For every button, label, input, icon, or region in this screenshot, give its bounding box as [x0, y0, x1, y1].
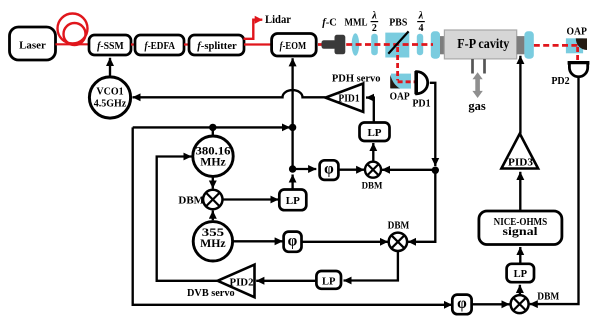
red beam PBS down — [398, 47, 416, 82]
svg-text:φ: φ — [457, 295, 467, 312]
red beam cavity to OAP2 — [534, 44, 578, 47]
cavity mount left — [440, 36, 448, 54]
oscillator 380.16 MHz — [193, 136, 233, 176]
wire PID3 to cavity — [519, 56, 521, 134]
svg-text:LP: LP — [514, 269, 528, 280]
svg-text:4: 4 — [419, 23, 424, 34]
wire red splitter-EOM — [244, 43, 272, 45]
fiber red line — [56, 43, 91, 45]
svg-text:PID3: PID3 — [508, 158, 533, 169]
f-EOM box — [272, 34, 317, 57]
red beam main — [318, 43, 433, 46]
OAP1 cyan mount — [391, 74, 411, 89]
wire red Lidar branch — [244, 20, 263, 39]
wire 380 top stub — [212, 126, 214, 137]
wire rail y127 into EOM junction — [133, 126, 290, 128]
svg-text:PD1: PD1 — [412, 98, 430, 109]
svg-text:signal: signal — [503, 224, 539, 238]
svg-text:λ: λ — [371, 11, 377, 22]
wire EOM drive vertical — [291, 58, 293, 169]
wire VCO1 to f-SSM — [109, 58, 111, 77]
node PD1 junction — [432, 167, 439, 174]
svg-text:φ: φ — [288, 233, 298, 250]
svg-text:f-SSM: f-SSM — [97, 40, 124, 52]
svg-text:gas: gas — [468, 99, 486, 113]
wire outer loop 380MHz rail to bottom phi — [133, 127, 452, 304]
svg-text:MHz: MHz — [200, 238, 226, 250]
filter LP4 — [507, 264, 534, 282]
oscillator VCO1 — [89, 77, 130, 118]
svg-text:OAP: OAP — [390, 91, 410, 102]
cavity gas legs — [471, 59, 474, 74]
svg-text:f-EOM: f-EOM — [280, 40, 307, 52]
mixer DBM4 — [511, 295, 529, 313]
node LP-phi junction — [289, 165, 296, 172]
amplifier PID1 — [325, 84, 363, 112]
svg-text:LP: LP — [322, 276, 336, 287]
wire PD2 down to DBM4 — [530, 77, 579, 304]
wire PD1 down to junction — [430, 83, 436, 166]
svg-text:LP: LP — [286, 195, 300, 207]
wire PID1 to VCO1 with hop — [133, 90, 326, 97]
phase shifter phi1 — [320, 160, 339, 180]
wire DBM2 up to LP2 — [372, 143, 374, 161]
photodetector PD2 — [568, 61, 590, 65]
mixer DBM3 — [389, 233, 407, 251]
f-SSM box — [89, 35, 131, 55]
node rail-380 — [209, 124, 216, 131]
phase shifter phi3 — [452, 295, 471, 315]
red beam OAP2 to PD2 — [576, 47, 579, 61]
svg-text:2: 2 — [372, 23, 377, 34]
svg-text:4.5GHz: 4.5GHz — [94, 98, 127, 109]
svg-text:MHz: MHz — [200, 156, 226, 168]
svg-text:LP: LP — [367, 127, 381, 139]
filter LP1 — [279, 190, 306, 211]
svg-text:f-EDFA: f-EDFA — [145, 40, 176, 52]
svg-text:OAP: OAP — [567, 27, 587, 38]
cavity mirror right — [524, 31, 533, 58]
svg-text:PDH servo: PDH servo — [332, 72, 381, 84]
svg-text:PID1: PID1 — [338, 93, 359, 104]
wire phi3 to DBM4 — [472, 303, 510, 305]
svg-text:F-P cavity: F-P cavity — [457, 36, 509, 51]
OAP2 mirror wedge — [576, 38, 587, 50]
svg-text:DBM: DBM — [178, 196, 204, 207]
svg-text:λ: λ — [418, 11, 424, 22]
wire red SSM-EDFA — [131, 43, 135, 45]
svg-text:Lidar: Lidar — [265, 12, 292, 26]
gas arrow — [472, 72, 482, 98]
mixer DBM2 — [365, 162, 381, 178]
PBS diagonal — [388, 31, 408, 53]
f-C connector — [322, 35, 346, 55]
quarter-wave plate — [417, 34, 423, 56]
wire LP1 up to junction — [291, 175, 293, 190]
wire 355 to DBM1 — [212, 211, 214, 221]
OAP1 mirror wedge — [390, 75, 400, 89]
NICE-OHMS signal box — [479, 211, 562, 245]
svg-text:MML: MML — [345, 17, 368, 29]
MML lens — [352, 33, 360, 55]
wire DVB feedback PID2 to 380MHz — [157, 157, 219, 281]
F-P cavity body — [444, 30, 516, 59]
filter LP2 — [360, 123, 390, 142]
wire phi2 to DBM3 — [302, 241, 389, 243]
wire LP3 to PID2 — [256, 280, 316, 282]
wire 355 to phi2 — [233, 240, 283, 242]
f-EDFA box — [135, 35, 184, 55]
svg-text:DVB servo: DVB servo — [187, 287, 235, 299]
cavity mount right — [517, 36, 525, 54]
wire LP4 to NICE-OHMS — [519, 247, 521, 264]
wire junction down to DBM3 — [408, 167, 435, 242]
svg-text:PBS: PBS — [389, 17, 407, 29]
filter LP3 — [316, 271, 341, 289]
laser box — [10, 27, 56, 60]
wire NICE-OHMS to PID3 — [519, 172, 521, 211]
half-wave plate — [371, 34, 378, 56]
svg-text:φ: φ — [324, 160, 334, 177]
mixer DBM1 — [203, 190, 222, 209]
svg-text:f-C: f-C — [322, 18, 337, 29]
wire DBM3 to LP3 — [344, 251, 398, 281]
wire LP2 to PID1 — [366, 98, 374, 123]
fiber coil — [58, 14, 88, 46]
photodetector PD1 — [414, 71, 418, 94]
svg-text:VCO1: VCO1 — [96, 87, 123, 98]
f-splitter box — [189, 35, 244, 55]
svg-text:PD2: PD2 — [551, 76, 569, 87]
node rail-EOM — [289, 124, 296, 131]
wire red EDFA-splitter — [184, 43, 189, 45]
PBS cube — [385, 33, 409, 58]
phase shifter phi2 — [284, 232, 302, 252]
wire 380 to DBM1 — [212, 176, 214, 188]
svg-text:f-splitter: f-splitter — [197, 40, 237, 52]
svg-text:355: 355 — [202, 227, 225, 239]
cavity mirror left — [431, 31, 440, 58]
svg-text:Laser: Laser — [19, 40, 46, 52]
amplifier PID3 — [501, 134, 538, 169]
svg-text:DBM: DBM — [362, 181, 383, 191]
oscillator 355 MHz — [193, 222, 232, 261]
wire rail PD1 junction to DBM2 — [382, 169, 436, 171]
amplifier PID2 — [218, 265, 255, 298]
wire DBM1 to LP1 — [223, 198, 279, 200]
wire DBM4 up to LP4 — [519, 285, 521, 295]
svg-text:DBM: DBM — [388, 221, 410, 232]
svg-text:DBM: DBM — [537, 291, 560, 302]
wire phi1 to DBM2 — [338, 169, 364, 171]
OAP2 cyan mount — [566, 38, 583, 53]
wire junction to phi1 — [293, 168, 317, 170]
